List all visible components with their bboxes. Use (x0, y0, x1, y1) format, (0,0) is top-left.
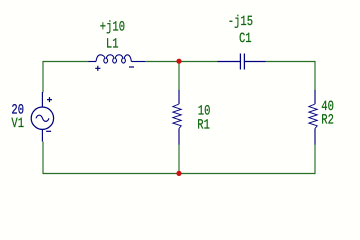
R1 zigzag body (173, 104, 181, 129)
svg-text:C1: C1 (239, 31, 252, 47)
C1 pin 1 (left lead) (218, 61, 241, 63)
wire top-middle segment (inductor to node A) (145, 61, 218, 63)
L1 plus polarity mark (95, 66, 100, 71)
wire left vertical (top) (42, 61, 44, 93)
L1 pin 2 (right lead) (131, 61, 145, 63)
wire left vertical (bottom) (42, 142, 44, 175)
R2 zigzag body (309, 104, 317, 129)
L1 pin 1 (left lead) (89, 61, 97, 63)
label 10 (R1 value) (198, 103, 211, 119)
capacitor C1 (218, 54, 266, 70)
label R1 (197, 117, 210, 133)
V1 pin - (bottom lead) (41, 129, 43, 141)
V1 sine wave (36, 115, 49, 121)
L1 coil (96, 55, 131, 63)
resistor R1 (173, 90, 181, 145)
svg-text:+j10: +j10 (100, 19, 125, 35)
V1 body circle (31, 107, 53, 129)
wire bottom (43, 173, 315, 175)
svg-text:L1: L1 (106, 36, 119, 52)
R2 leads (314, 90, 316, 145)
V1 minus polarity mark (46, 130, 51, 132)
L1 minus polarity mark (129, 66, 134, 68)
node junction dot bottom (176, 171, 181, 176)
label L1 (106, 36, 119, 52)
label 20 (V1 value) (11, 103, 24, 119)
label R2 (321, 112, 334, 128)
wire top-left segment (43, 61, 89, 63)
C1 left plate (239, 54, 241, 70)
C1 right plate (243, 54, 245, 70)
wire right vertical (top) (314, 61, 316, 91)
label 40 (R2 value) (321, 99, 334, 115)
V1 pin + (top lead) (41, 92, 43, 107)
wire middle vertical (top) (178, 62, 180, 91)
label -j15 (C1 value) (228, 14, 253, 30)
svg-text:-j15: -j15 (228, 14, 253, 30)
svg-text:R1: R1 (197, 117, 210, 133)
C1 pin 2 (right lead) (244, 61, 265, 63)
wire top-right segment (capacitor to right corner) (266, 61, 316, 63)
label V1 (11, 116, 24, 132)
label +j10 (L1 value) (100, 19, 125, 35)
svg-text:R2: R2 (321, 112, 334, 128)
resistor R2 (309, 90, 317, 145)
V1 plus polarity mark (47, 97, 52, 102)
R1 leads (178, 90, 180, 145)
wire right vertical (bottom) (314, 144, 316, 174)
inductor L1 (89, 55, 146, 71)
svg-text:V1: V1 (11, 116, 24, 132)
label C1 (239, 31, 252, 47)
voltage source V1 (AC sine source) (31, 92, 53, 142)
wire middle vertical (bottom) (178, 144, 180, 174)
node junction dot top (node A) (176, 59, 181, 64)
